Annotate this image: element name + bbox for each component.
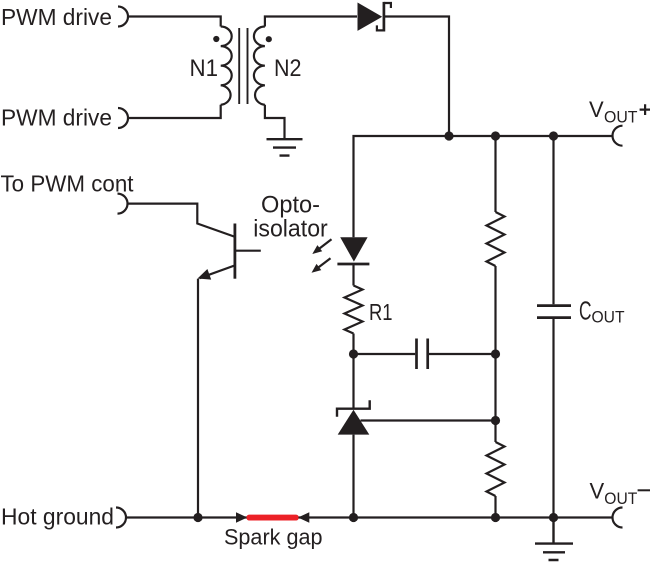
wire: divider branch from VOUT+ rail <box>494 136 496 212</box>
LED light arrow 2 <box>312 258 331 273</box>
diode D1 (Schottky rectifier) <box>358 2 391 32</box>
svg-text:Opto-: Opto- <box>261 192 320 219</box>
ground symbol (output return) <box>535 519 573 560</box>
svg-text:OUT: OUT <box>592 309 625 327</box>
port connector: Hot ground <box>116 508 126 528</box>
wire: PWM drive bottom to transformer N1 bottom <box>128 105 221 118</box>
wire: TL431 reference to divider tap <box>361 419 496 421</box>
wire: Q1 emitter to hot ground rail <box>197 279 199 518</box>
wire: D1 cathode to VOUT+ rail <box>385 17 449 137</box>
spark gap right electrode arrow <box>298 512 309 522</box>
junction: TL431 anode on rail <box>349 513 358 522</box>
wire: N2 bottom to ground <box>265 105 285 138</box>
label: VOUT- <box>590 479 638 509</box>
wire: R1 to TL431 cathode <box>352 334 354 410</box>
port connector: PWM drive top <box>118 7 128 27</box>
wire: N2 top to diode D1 anode <box>265 17 357 27</box>
svg-text:To PWM cont: To PWM cont <box>1 170 134 196</box>
transformer core <box>239 28 247 104</box>
spark gap left electrode arrow <box>236 512 247 522</box>
junction: R3 on rail <box>491 513 500 522</box>
wire: R3 to hot ground rail <box>494 496 496 518</box>
port connector: PWM drive bottom <box>118 108 128 128</box>
wire: R2 to R3 <box>494 266 496 442</box>
port connector: VOUT- <box>613 508 623 528</box>
junction: COUT on rail <box>549 513 558 522</box>
spark gap element (red) <box>247 515 299 521</box>
wire: COUT from VOUT+ rail <box>552 136 554 304</box>
svg-text:PWM drive: PWM drive <box>1 105 112 131</box>
junction: comp capacitor right node <box>491 349 500 358</box>
polarity dot N1 <box>213 36 219 42</box>
resistor R1 <box>345 286 363 334</box>
LED light arrow 1 <box>312 239 331 254</box>
resistor R3 (lower divider) <box>487 442 505 496</box>
wire: comp capacitor right lead <box>429 353 496 355</box>
junction: Q1 emitter on rail <box>193 513 202 522</box>
svg-text:V: V <box>589 97 604 122</box>
wire: VOUT+ rail <box>354 136 613 237</box>
capacitor C1 (compensation) <box>417 339 428 370</box>
svg-text:V: V <box>590 479 605 504</box>
transformer T1 secondary winding N2 <box>254 27 265 105</box>
svg-text:N2: N2 <box>274 55 302 82</box>
port connector: To PWM cont <box>118 194 128 214</box>
svg-text:isolator: isolator <box>253 216 328 243</box>
wire: COUT to hot ground rail <box>552 319 554 518</box>
resistor R2 (upper divider) <box>487 212 505 266</box>
label: COUT <box>579 298 625 327</box>
transformer T1 primary winding N1 <box>221 27 232 105</box>
junction: divider branch on VOUT+ rail <box>491 131 500 140</box>
label: VOUT+ <box>589 97 638 126</box>
LED D2 (optocoupler emitter) <box>337 237 369 264</box>
wire: comp capacitor left lead <box>354 353 416 355</box>
label: Opto-isolator <box>253 192 328 243</box>
svg-text:R1: R1 <box>369 299 393 325</box>
junction: divider tap / TL431 ref node <box>491 416 500 425</box>
port connector: VOUT+ <box>613 126 623 146</box>
wire: PWM drive top to transformer N1 top <box>128 17 221 27</box>
svg-text:OUT: OUT <box>604 490 637 508</box>
svg-text:N1: N1 <box>190 55 219 82</box>
wire: To PWM cont to Q1 collector <box>128 204 235 237</box>
junction: COUT branch on VOUT+ rail <box>549 131 558 140</box>
ground symbol (transformer secondary) <box>267 139 303 155</box>
svg-text:Spark gap: Spark gap <box>224 525 323 550</box>
junction: R1 / comp capacitor node <box>349 349 358 358</box>
wire: LED cathode to R1 <box>352 264 354 286</box>
shunt regulator U1 (TL431 / zener) <box>337 400 370 434</box>
svg-text:PWM drive: PWM drive <box>1 4 112 30</box>
polarity dot N2 <box>266 36 272 42</box>
svg-text:Hot ground: Hot ground <box>1 503 114 529</box>
transistor Q1 (optocoupler phototransistor) <box>198 224 261 280</box>
svg-text:OUT: OUT <box>604 108 638 126</box>
capacitor COUT <box>537 306 571 318</box>
wire: TL431 anode to hot ground rail <box>352 435 354 518</box>
svg-text:C: C <box>579 298 592 326</box>
junction: D1 branch on VOUT+ rail <box>444 131 453 140</box>
wire: hot ground rail <box>126 516 613 518</box>
